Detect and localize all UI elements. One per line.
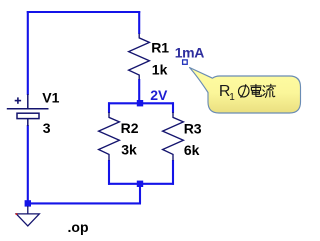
junction node 2V xyxy=(137,100,143,106)
balloon kanji den xyxy=(251,84,262,96)
wire left vertical xyxy=(27,11,29,95)
resistor R2 xyxy=(99,112,120,161)
svg-text:6k: 6k xyxy=(184,142,200,158)
ground xyxy=(16,206,39,226)
svg-text:1mA: 1mA xyxy=(175,45,204,61)
wire bottom parallel horizontal xyxy=(108,183,174,185)
probe square 1mA marker xyxy=(183,60,188,64)
wire mid horizontal node 2V xyxy=(108,102,174,104)
svg-text:R1: R1 xyxy=(151,40,169,56)
svg-text:2V: 2V xyxy=(150,87,168,103)
svg-text:V1: V1 xyxy=(42,90,59,106)
wire bottom horizontal to ground xyxy=(27,202,141,204)
svg-text:3k: 3k xyxy=(121,142,137,158)
junction ground node xyxy=(25,200,31,206)
svg-text:1: 1 xyxy=(229,92,235,103)
wire R3 top lead xyxy=(172,102,174,113)
battery V1 symbol xyxy=(7,94,49,126)
callout balloon xyxy=(190,68,301,114)
wire top horizontal xyxy=(27,11,140,13)
wire R1 bottom lead xyxy=(138,79,140,103)
svg-text:R2: R2 xyxy=(121,120,139,136)
svg-text:3: 3 xyxy=(43,120,51,136)
wire R2 bottom lead xyxy=(108,160,110,185)
resistor R3 xyxy=(163,112,184,161)
balloon kanji ryuu xyxy=(263,84,276,97)
resistor R1 xyxy=(129,34,150,80)
balloon kanji no xyxy=(238,85,249,98)
wire V1 bottom to ground node xyxy=(27,125,29,204)
wire R3 bottom lead xyxy=(172,160,174,185)
red mark xyxy=(16,213,18,215)
svg-text:1k: 1k xyxy=(152,62,168,78)
wire stub from bottom node xyxy=(139,184,141,204)
wire R1 top lead xyxy=(138,11,140,34)
wire R2 top lead xyxy=(108,102,110,113)
svg-text:.op: .op xyxy=(68,219,89,235)
svg-text:R3: R3 xyxy=(184,120,202,136)
junction bottom node xyxy=(137,181,143,187)
